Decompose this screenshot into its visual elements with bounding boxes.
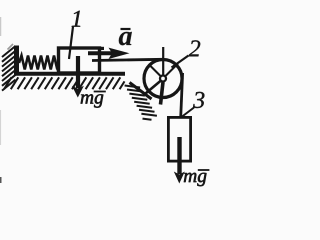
label line to block 1	[69, 27, 73, 60]
wall (left fixed wall)	[14, 46, 19, 76]
spring	[19, 56, 58, 70]
pulley spoke up-left	[149, 65, 161, 77]
acceleration arrow a	[88, 51, 112, 55]
rope from pulley to block 3	[181, 73, 183, 122]
label line to pulley 2	[172, 56, 189, 68]
label 1	[72, 11, 81, 27]
pulley hub	[160, 76, 166, 82]
floor (table top)	[14, 72, 125, 76]
label a with bar	[121, 28, 131, 30]
block 1 top edge overshoot	[99, 47, 104, 50]
floor hatching	[4, 77, 125, 89]
pulley 2 (wheel)	[144, 60, 182, 98]
weight arrow mg of block 1	[76, 56, 80, 88]
label 3	[193, 92, 204, 108]
label mg of block 3	[184, 173, 197, 182]
rope from block 1 to pulley	[92, 59, 164, 60]
label 2	[189, 40, 200, 56]
label line to block 3	[182, 108, 195, 118]
pulley spoke vertical	[162, 47, 164, 82]
scan artifact left edge	[0, 177, 2, 183]
wall hatching	[2, 44, 16, 91]
block 1 (body on table)	[59, 48, 100, 73]
bracket hatching	[125, 86, 157, 120]
weight arrow mg of block 3	[177, 137, 181, 174]
pulley spoke down-left	[146, 81, 162, 94]
pulley bracket edge	[130, 83, 152, 100]
label mg of block 1	[81, 94, 94, 103]
pulley spoke up-right	[165, 64, 178, 77]
block 3 (hanging body)	[168, 117, 190, 161]
